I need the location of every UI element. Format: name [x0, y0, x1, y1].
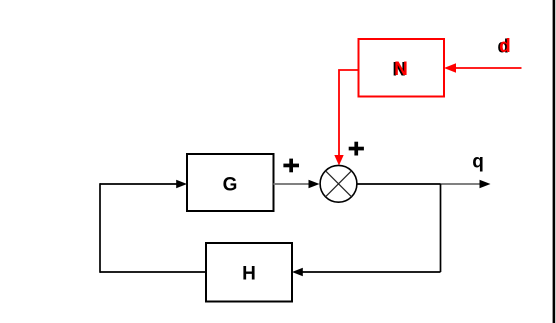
- plus sign at G output: [283, 159, 299, 173]
- plus sign at disturbance input: [349, 142, 364, 156]
- svg-text:G: G: [223, 175, 238, 196]
- svg-text:q: q: [472, 151, 484, 172]
- feedback wire down from takeoff node: [440, 184, 442, 272]
- summing junction (circle with X): [320, 165, 357, 202]
- feedback wire into H (arrow left): [292, 268, 441, 277]
- wire H output left: [100, 271, 206, 273]
- label d (disturbance input): [497, 36, 510, 58]
- block G (forward path): [187, 154, 274, 211]
- wire N to summing junction (red, down): [334, 70, 358, 166]
- block H (feedback path): [206, 243, 292, 302]
- output arrow q (gray, black head): [441, 180, 491, 189]
- block N (disturbance filter box, red): [359, 39, 445, 97]
- wire G to summing junction (gray, black head): [274, 180, 320, 189]
- label q (output): [472, 151, 484, 172]
- svg-text:N: N: [394, 59, 408, 80]
- wire feedback up left side: [99, 183, 101, 273]
- wire summing junction to takeoff node: [357, 183, 441, 185]
- wire d to N (red arrow): [444, 63, 522, 73]
- svg-text:H: H: [242, 264, 256, 285]
- svg-text:d: d: [499, 36, 511, 57]
- right image border line: [553, 0, 556, 323]
- wire into G (arrow right): [100, 180, 187, 189]
